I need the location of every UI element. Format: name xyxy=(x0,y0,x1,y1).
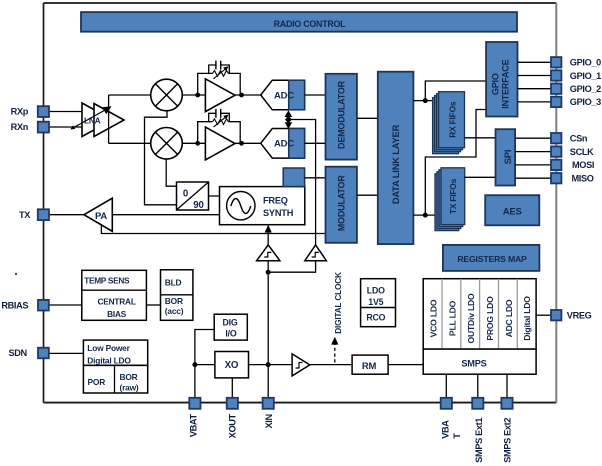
svg-text:TX FIFOs: TX FIFOs xyxy=(448,178,458,214)
svg-text:PROG LDO: PROG LDO xyxy=(485,296,495,341)
svg-text:ADC: ADC xyxy=(274,139,294,150)
SPI block xyxy=(496,129,516,185)
ADC Q xyxy=(261,129,305,159)
pin RXp xyxy=(38,106,49,117)
wire 0/90 to freq synth xyxy=(209,195,220,197)
POR / BOR raw box xyxy=(83,365,147,393)
svg-text:PA: PA xyxy=(95,211,107,222)
svg-text:LDO: LDO xyxy=(367,285,385,295)
XO box xyxy=(215,352,249,378)
svg-text:GPIO_1: GPIO_1 xyxy=(570,71,601,81)
wire filter I to ADC I xyxy=(235,94,261,96)
svg-text:GPIO_0: GPIO_0 xyxy=(570,58,601,68)
low power digital LDO box xyxy=(83,340,147,366)
wire B3 to RM xyxy=(310,364,352,366)
data link layer block xyxy=(378,72,414,244)
pin GPIO_2 xyxy=(551,84,561,94)
stray dot xyxy=(15,273,17,275)
pin GPIO_0 xyxy=(551,57,561,67)
SMPS block xyxy=(423,349,536,374)
BLD / BOR acc box xyxy=(161,270,193,321)
svg-text:1V5: 1V5 xyxy=(368,297,383,307)
wire LDO to VREG xyxy=(536,314,551,316)
svg-text:SPI: SPI xyxy=(503,150,514,165)
wire RXn to LNA xyxy=(49,126,95,128)
label VBA T xyxy=(441,420,463,439)
wire central bias to BLD xyxy=(146,304,160,306)
svg-text:TEMP SENS: TEMP SENS xyxy=(84,275,130,285)
wire 0/90 to mixer Q xyxy=(166,159,176,186)
amplifier PA xyxy=(84,198,112,231)
svg-text:INTERFACE: INTERFACE xyxy=(500,59,510,108)
LDO 1V5 / RCO box xyxy=(361,279,396,327)
svg-text:MOSI: MOSI xyxy=(572,160,594,170)
wire demodulator to data link layer xyxy=(357,117,378,119)
svg-text:SMPS: SMPS xyxy=(461,359,486,369)
wire VBAT junction to XO xyxy=(195,364,215,366)
svg-text:SDN: SDN xyxy=(8,348,27,358)
svg-text:CSn: CSn xyxy=(570,134,588,144)
wire B1 input xyxy=(267,261,269,273)
amplifier LNA xyxy=(82,103,124,137)
modulator block xyxy=(326,167,357,243)
wire RX FIFOs to SPI xyxy=(465,137,496,139)
svg-text:SMPS Ext2: SMPS Ext2 xyxy=(503,418,513,463)
node VBAT junction xyxy=(192,362,197,367)
filter I feedback capacitor C xyxy=(209,61,230,74)
svg-text:90: 90 xyxy=(193,200,203,211)
wire RBIAS to central bias xyxy=(49,304,82,306)
wire ADC I to demodulator xyxy=(305,94,326,96)
freq synth U1 xyxy=(220,187,305,225)
svg-text:Digital LDO: Digital LDO xyxy=(87,356,131,366)
pin SDN xyxy=(38,348,49,359)
temp sens / central bias box xyxy=(82,270,147,320)
wire modulator to data link layer xyxy=(357,194,378,196)
GPIO interface block xyxy=(486,42,517,117)
clock buffer B1 xyxy=(257,245,280,261)
svg-text:VREG: VREG xyxy=(567,311,592,321)
svg-text:(raw): (raw) xyxy=(120,382,139,392)
wire SMPS to SMPS Ext1 pin xyxy=(477,374,479,398)
svg-text:XIN: XIN xyxy=(264,413,274,428)
node clock junction xyxy=(266,270,271,275)
node TX junction xyxy=(423,213,428,218)
svg-text:VBAT: VBAT xyxy=(189,413,199,437)
AES block xyxy=(485,195,539,225)
svg-text:ADC: ADC xyxy=(274,90,294,101)
svg-text:I/O: I/O xyxy=(225,329,236,339)
svg-text:DEMODULATOR: DEMODULATOR xyxy=(336,80,346,149)
wire 0/90 to mixer I xyxy=(145,111,177,205)
TX FIFOs stack xyxy=(435,168,465,231)
pin SMPS Ext1 xyxy=(472,398,483,409)
wire DAC to modulator xyxy=(305,177,326,179)
node filter Q input xyxy=(195,141,200,146)
radio control block xyxy=(81,12,517,32)
svg-text:BLD: BLD xyxy=(165,277,182,287)
svg-text:OUTDiv LDO: OUTDiv LDO xyxy=(466,293,476,344)
filter Q feedback capacitor C xyxy=(209,109,230,122)
wire filter Q to ADC Q xyxy=(235,142,261,144)
wire junction to GPIO interface (lower) xyxy=(425,110,486,216)
svg-text:RCO: RCO xyxy=(366,313,385,323)
amplifier filter Q xyxy=(205,127,235,160)
node filter I input xyxy=(195,93,200,98)
svg-text:Low Power: Low Power xyxy=(87,343,130,353)
wire SDN to low power LDO xyxy=(49,352,83,354)
svg-text:POR: POR xyxy=(88,377,106,387)
LNA gain arrow xyxy=(70,106,111,129)
node filter I output xyxy=(239,93,244,98)
pin TX xyxy=(38,209,49,220)
pin GPIO_3 xyxy=(551,97,561,107)
wire XO to buffer B3 xyxy=(249,364,293,366)
svg-text:RADIO CONTROL: RADIO CONTROL xyxy=(274,19,347,29)
wire CSn xyxy=(515,137,551,139)
svg-text:(acc): (acc) xyxy=(165,306,184,316)
svg-text:SCLK: SCLK xyxy=(570,147,594,157)
mixer I xyxy=(151,79,183,111)
svg-text:Digital LDO: Digital LDO xyxy=(522,296,532,341)
digital clock dashed arrow xyxy=(331,272,343,363)
node filter Q output xyxy=(239,141,244,146)
svg-text:CENTRAL: CENTRAL xyxy=(97,297,135,307)
wire TX FIFOs to SPI xyxy=(465,176,496,178)
RM box xyxy=(352,355,388,374)
pin SMPS Ext2 xyxy=(501,398,512,409)
pin RXn xyxy=(38,122,49,133)
clock buffer B2 xyxy=(305,245,327,261)
wire digital clock to ADCs xyxy=(288,120,315,245)
wire MISO xyxy=(515,177,551,179)
svg-text:DIGITAL CLOCK: DIGITAL CLOCK xyxy=(333,272,343,334)
svg-text:BIAS: BIAS xyxy=(107,309,127,319)
wire B1 to freq synth with arrow xyxy=(265,225,272,245)
pin CSn xyxy=(551,133,561,143)
wire data link layer to TX FIFOs xyxy=(413,214,441,216)
svg-text:RBIAS: RBIAS xyxy=(1,300,28,310)
svg-text:VBA: VBA xyxy=(441,420,451,439)
wire GPIO_3 xyxy=(518,101,552,103)
wire RM to SMPS xyxy=(388,364,423,366)
wire freq synth to PA xyxy=(112,214,219,216)
svg-text:GPIO_2: GPIO_2 xyxy=(570,84,601,94)
pin XOUT xyxy=(227,398,238,409)
svg-text:PLL LDO: PLL LDO xyxy=(447,300,457,336)
wire LNA to mixer I xyxy=(109,94,151,96)
svg-text:RXn: RXn xyxy=(11,122,29,132)
amplifier filter I xyxy=(205,79,235,112)
node RX junction xyxy=(423,98,428,103)
wire SCLK xyxy=(515,151,551,153)
wire XOUT to XO xyxy=(231,378,233,398)
svg-text:TX: TX xyxy=(19,210,31,220)
svg-text:SMPS Ext1: SMPS Ext1 xyxy=(474,418,484,463)
ADC I xyxy=(261,80,305,110)
wire RXp to LNA xyxy=(49,111,84,113)
pin SCLK xyxy=(551,146,561,156)
chip outer border xyxy=(44,3,557,403)
ADC clock double arrow xyxy=(285,110,293,129)
wire junction to GPIO interface (upper) xyxy=(425,81,486,101)
wire LNA to mixer Q xyxy=(109,142,151,144)
svg-text:VCO LDO: VCO LDO xyxy=(429,299,439,337)
svg-text:0: 0 xyxy=(183,189,188,200)
svg-text:SYNTH: SYNTH xyxy=(263,208,294,218)
svg-text:XO: XO xyxy=(225,360,239,371)
svg-text:RXp: RXp xyxy=(11,106,29,116)
demodulator block xyxy=(326,74,357,160)
svg-text:AES: AES xyxy=(503,207,522,218)
svg-text:RM: RM xyxy=(362,361,377,372)
wire ADC Q to demodulator xyxy=(305,142,326,144)
svg-text:REGISTERS MAP: REGISTERS MAP xyxy=(457,254,527,264)
wire GPIO_0 xyxy=(518,61,552,63)
wire TX pin to PA xyxy=(49,214,84,216)
pin XIN xyxy=(263,398,274,409)
wire mixer Q to filter Q xyxy=(182,142,205,144)
pin GPIO_1 xyxy=(551,70,561,80)
svg-text:MISO: MISO xyxy=(572,174,594,184)
wire MOSI xyxy=(515,164,551,166)
clock buffer B3 xyxy=(292,354,310,376)
wire GPIO_2 xyxy=(518,88,552,90)
RX FIFOs stack xyxy=(433,92,465,154)
svg-text:DATA LINK LAYER: DATA LINK LAYER xyxy=(390,124,401,204)
registers map block xyxy=(443,245,540,271)
pin MISO xyxy=(551,173,561,183)
svg-text:DIG: DIG xyxy=(222,318,237,328)
pin VREG xyxy=(551,310,561,320)
pin VBAT2 xyxy=(441,398,452,409)
svg-text:BOR: BOR xyxy=(120,372,138,382)
svg-text:RX FIFOs: RX FIFOs xyxy=(447,101,457,138)
wire XIN riser xyxy=(267,272,269,398)
svg-text:ADC LDO: ADC LDO xyxy=(504,299,514,337)
filter I feedback resistor loop xyxy=(198,66,241,95)
DAC xyxy=(283,168,304,187)
wire VBAT riser to DIG IO xyxy=(195,330,214,398)
LDO bank xyxy=(423,279,536,349)
svg-text:T: T xyxy=(452,433,462,439)
wire GPIO_1 xyxy=(518,75,552,77)
mixer Q xyxy=(151,128,183,160)
svg-text:BOR: BOR xyxy=(165,296,183,306)
svg-text:GPIO_3: GPIO_3 xyxy=(570,97,601,107)
node XIN junction xyxy=(266,362,271,367)
pin RBIAS xyxy=(38,300,49,311)
wire B2 input xyxy=(268,261,315,273)
wire mixer I to filter I xyxy=(182,94,205,96)
phase shifter 0/90 xyxy=(177,182,209,211)
svg-text:GPIO: GPIO xyxy=(490,73,500,95)
svg-text:XOUT: XOUT xyxy=(228,413,238,438)
DIG I/O box xyxy=(214,314,247,340)
wire SMPS to SMPS Ext2 pin xyxy=(506,374,508,398)
svg-text:MODULATOR: MODULATOR xyxy=(336,175,346,232)
pin VBAT xyxy=(189,398,200,409)
svg-text:FREQ: FREQ xyxy=(263,195,288,205)
wire modulator to PA xyxy=(101,225,325,234)
pin MOSI xyxy=(551,160,561,170)
filter Q feedback resistor loop xyxy=(198,115,241,144)
wire SMPS to VBAT2 pin xyxy=(445,374,447,398)
wire LNA output riser xyxy=(108,95,110,143)
wire data link layer to RX FIFOs xyxy=(413,100,438,102)
